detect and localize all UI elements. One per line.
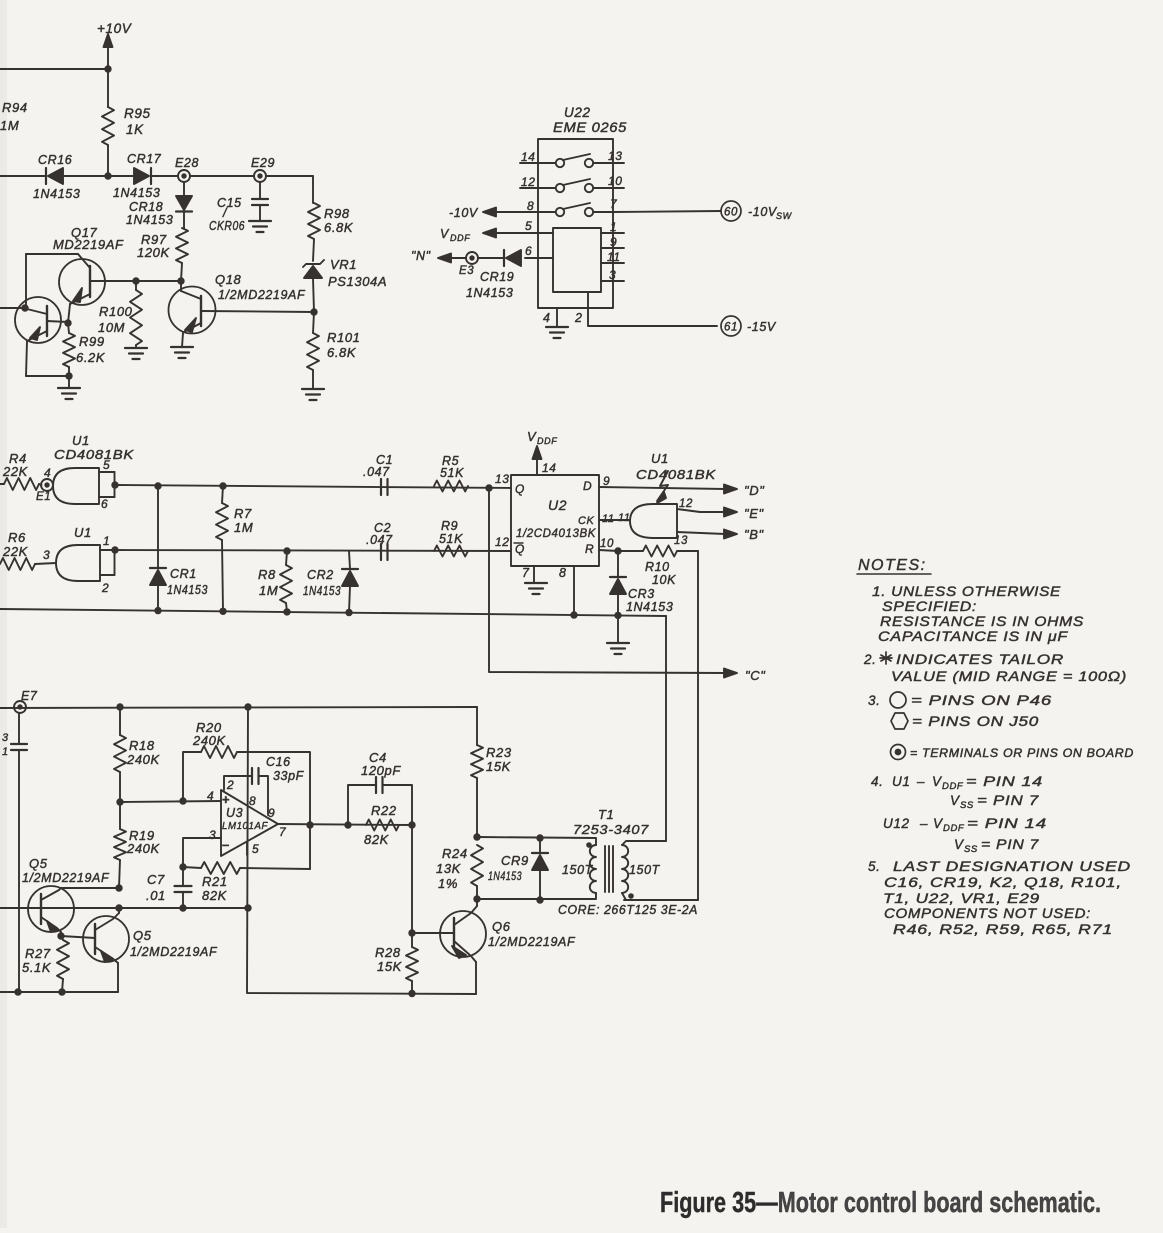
svg-text:R46, R52, R59, R65, R71: R46, R52, R59, R65, R71 bbox=[893, 922, 1113, 937]
relay contact row pins 8-7 bbox=[497, 197, 618, 216]
ground bus wire y610 bbox=[0, 609, 666, 616]
svg-text:240K: 240K bbox=[126, 841, 160, 856]
svg-text:MD2219AF: MD2219AF bbox=[53, 237, 124, 252]
capacitor C3 at left edge bbox=[2, 713, 27, 992]
node R24 bottom Q6 collector bbox=[473, 895, 480, 902]
svg-text:6.8K: 6.8K bbox=[324, 220, 354, 235]
arrow -10V at pin 8 bbox=[449, 206, 496, 220]
resistor R28 15K bbox=[375, 933, 418, 993]
svg-text:DDF: DDF bbox=[943, 823, 965, 834]
svg-text:1/2MD2219AF: 1/2MD2219AF bbox=[218, 288, 306, 302]
wire down to R28 bbox=[411, 825, 413, 933]
svg-text:D: D bbox=[583, 479, 592, 493]
node R20 left bbox=[179, 797, 186, 804]
arrow node E bbox=[724, 506, 764, 521]
power +10V bbox=[97, 21, 133, 69]
relay U22 EME0265 outline bbox=[538, 105, 627, 308]
svg-text:CR19: CR19 bbox=[480, 270, 514, 284]
svg-text:4: 4 bbox=[207, 789, 214, 803]
resistor R18 240K bbox=[114, 707, 160, 802]
svg-text:1N4153: 1N4153 bbox=[488, 871, 522, 883]
svg-text:DDF: DDF bbox=[450, 233, 470, 243]
svg-text:INDICATES TAILOR: INDICATES TAILOR bbox=[896, 652, 1064, 667]
svg-text:6.2K: 6.2K bbox=[76, 350, 106, 365]
relay inner pins 1 9 11 3 bbox=[601, 220, 624, 282]
arrow node B bbox=[724, 527, 764, 542]
transistor Q5 lower 1/2MD2219AF bbox=[61, 908, 218, 992]
capacitor C4 120pF bbox=[348, 750, 412, 825]
wire Q18 base rail y312 bbox=[202, 311, 314, 312]
svg-text:"D": "D" bbox=[744, 483, 765, 498]
wire to T1 primary top bbox=[477, 837, 596, 845]
svg-text:"N": "N" bbox=[411, 249, 431, 263]
arrow node C bbox=[724, 668, 766, 683]
svg-text:51K: 51K bbox=[440, 466, 464, 480]
svg-text:11: 11 bbox=[602, 513, 615, 525]
diode CR2 1N4153 bbox=[303, 551, 358, 613]
resistor R24 13K 1% bbox=[436, 845, 483, 899]
node CR9 top bbox=[536, 834, 543, 841]
svg-text:"C": "C" bbox=[745, 668, 766, 683]
svg-text:7: 7 bbox=[279, 825, 287, 839]
svg-text:= TERMINALS OR PINS ON BOARD: = TERMINALS OR PINS ON BOARD bbox=[910, 748, 1134, 760]
wire Q17 collector feed bbox=[25, 254, 27, 308]
svg-text:C16: C16 bbox=[266, 755, 291, 769]
svg-text:CR17: CR17 bbox=[127, 152, 162, 166]
svg-text:9: 9 bbox=[603, 474, 610, 488]
svg-text:= PINS ON J50: = PINS ON J50 bbox=[912, 714, 1039, 729]
svg-text:Q: Q bbox=[515, 542, 525, 556]
svg-text:R6: R6 bbox=[8, 530, 26, 545]
resistor R100 10M bbox=[98, 281, 142, 348]
U2 pin 11 wire CK bbox=[599, 512, 631, 525]
node gate2 output bbox=[111, 546, 118, 553]
svg-text:1/2CD4013BK: 1/2CD4013BK bbox=[516, 526, 596, 540]
diode CR17 1N4153 bbox=[108, 152, 178, 200]
svg-text:.047: .047 bbox=[363, 465, 390, 479]
svg-text:13: 13 bbox=[495, 472, 510, 486]
svg-text:13: 13 bbox=[608, 149, 623, 163]
svg-text:COMPONENTS NOT USED:: COMPONENTS NOT USED: bbox=[884, 906, 1091, 921]
svg-text:R100: R100 bbox=[99, 304, 133, 319]
svg-text:U2: U2 bbox=[548, 497, 567, 513]
note 4 U12 VSS bbox=[954, 837, 1039, 855]
svg-text:+10V: +10V bbox=[97, 21, 133, 36]
resistor R99 6.2K bbox=[63, 323, 106, 376]
svg-text:150T: 150T bbox=[562, 863, 594, 877]
svg-text:R22: R22 bbox=[371, 803, 397, 818]
svg-text:13: 13 bbox=[674, 535, 688, 547]
transistor Q16 bbox=[15, 297, 68, 376]
node bus CR1 bbox=[154, 607, 161, 614]
svg-text:R23: R23 bbox=[486, 745, 512, 760]
svg-text:8: 8 bbox=[559, 566, 567, 580]
svg-text:1N4153: 1N4153 bbox=[33, 187, 80, 201]
svg-text:E3: E3 bbox=[459, 265, 474, 277]
U2 pin 7 ground bbox=[522, 566, 547, 594]
wire node C bbox=[489, 488, 725, 673]
svg-text:5: 5 bbox=[252, 842, 259, 856]
svg-text:61: 61 bbox=[724, 322, 738, 334]
wire R10 down to T1 secondary bbox=[624, 551, 698, 900]
svg-text:9: 9 bbox=[610, 235, 617, 249]
resistor R101 6.8K bbox=[307, 312, 360, 389]
svg-text:12: 12 bbox=[495, 535, 510, 549]
capacitor C2 .047 bbox=[366, 521, 393, 560]
AND gate U1 near U2 bbox=[630, 504, 677, 538]
note 3 terminals symbol bbox=[891, 745, 1135, 761]
node bus R7 bbox=[219, 608, 226, 615]
node R22 right bbox=[408, 821, 415, 828]
svg-text:10: 10 bbox=[600, 538, 614, 550]
wire E29 to R98 corner bbox=[266, 175, 313, 177]
transformer T1 7253-3407 primary bbox=[562, 807, 649, 893]
svg-text:CR2: CR2 bbox=[307, 568, 334, 582]
svg-text:7: 7 bbox=[522, 566, 530, 580]
resistor R94 (partial label at edge) bbox=[0, 100, 28, 133]
svg-text:CAPACITANCE IS IN μF: CAPACITANCE IS IN μF bbox=[878, 629, 1068, 644]
wire gate2 to U2 pin12 bbox=[115, 550, 511, 551]
svg-text:1M: 1M bbox=[259, 583, 278, 598]
svg-text:1N4153: 1N4153 bbox=[466, 286, 513, 300]
svg-text:R27: R27 bbox=[25, 946, 51, 961]
svg-text:1N4153: 1N4153 bbox=[113, 186, 160, 200]
svg-text:E1: E1 bbox=[36, 491, 51, 503]
svg-text:14: 14 bbox=[542, 461, 557, 475]
svg-text:15K: 15K bbox=[377, 959, 403, 974]
svg-text:14: 14 bbox=[521, 150, 536, 164]
svg-text:12: 12 bbox=[679, 498, 693, 510]
svg-text:VR1: VR1 bbox=[330, 257, 357, 272]
svg-text:4: 4 bbox=[44, 466, 51, 480]
diode CR16 1N4153 bbox=[33, 153, 108, 201]
svg-text:5.: 5. bbox=[868, 859, 880, 874]
diode CR1 1N4153 bbox=[150, 486, 208, 611]
resistor R19 240K bbox=[114, 802, 160, 888]
flip-flop U2 1/2CD4013BK outline bbox=[511, 475, 599, 566]
resistor R5 51K bbox=[434, 454, 468, 492]
svg-text:–: – bbox=[916, 774, 925, 789]
svg-text:1: 1 bbox=[2, 746, 9, 758]
svg-text:6: 6 bbox=[525, 244, 532, 258]
svg-text:Q5: Q5 bbox=[29, 856, 48, 871]
relay pin 4 ground bbox=[543, 308, 568, 338]
svg-text:CORE: 266T125 3E-2A: CORE: 266T125 3E-2A bbox=[558, 903, 698, 917]
node C7 bottom bbox=[179, 904, 186, 911]
svg-text:U3: U3 bbox=[226, 806, 243, 820]
ground under Q18 bbox=[171, 347, 193, 358]
svg-text:CD4081BK: CD4081BK bbox=[54, 447, 135, 462]
svg-text:10M: 10M bbox=[98, 320, 125, 335]
U2 pin 9 wire to node D bbox=[599, 474, 725, 489]
svg-text:15K: 15K bbox=[486, 759, 512, 774]
label T1 core spec bbox=[558, 903, 698, 917]
svg-text:8: 8 bbox=[249, 794, 256, 808]
svg-text:1/2MD2219AF: 1/2MD2219AF bbox=[488, 935, 576, 949]
node bus CR3 bbox=[614, 612, 621, 619]
wire E28 to E29 bbox=[190, 175, 254, 177]
svg-text:CR16: CR16 bbox=[38, 153, 72, 167]
wire op-amp output pin 7 bbox=[278, 824, 412, 825]
node R95 top junction bbox=[104, 65, 111, 72]
svg-text:DDF: DDF bbox=[537, 436, 557, 446]
svg-text:4: 4 bbox=[543, 311, 551, 325]
svg-text:120K: 120K bbox=[137, 245, 170, 260]
U2 pin 13 label bbox=[495, 472, 510, 486]
relay U22 inner coil box bbox=[553, 228, 601, 292]
svg-text:1: 1 bbox=[610, 220, 617, 234]
svg-text:T1, U22, VR1, E29: T1, U22, VR1, E29 bbox=[883, 891, 1040, 906]
node R28 bottom bbox=[408, 990, 415, 997]
note 3 pins on P46 bbox=[868, 692, 1052, 708]
svg-text:3: 3 bbox=[2, 732, 9, 744]
svg-text:Q: Q bbox=[515, 482, 525, 496]
U2 pin 8 stub bbox=[559, 566, 574, 615]
svg-text:CKR06: CKR06 bbox=[209, 219, 245, 233]
svg-text:PS1304A: PS1304A bbox=[328, 274, 387, 289]
svg-text:= PIN 7: = PIN 7 bbox=[981, 837, 1039, 852]
svg-text:51K: 51K bbox=[439, 532, 463, 546]
svg-text:11: 11 bbox=[607, 250, 621, 264]
node R19 Q5 collector bbox=[115, 884, 122, 891]
node long vertical top bbox=[244, 703, 251, 710]
svg-text:= PIN 14: = PIN 14 bbox=[967, 816, 1047, 831]
svg-text:Q6: Q6 bbox=[492, 919, 511, 934]
svg-text:1M: 1M bbox=[0, 118, 19, 133]
svg-text:7253-3407: 7253-3407 bbox=[573, 822, 649, 837]
svg-text:1/2MD2219AF: 1/2MD2219AF bbox=[22, 871, 110, 885]
note 4 U12 VDDF bbox=[883, 816, 1047, 834]
svg-text:R21: R21 bbox=[202, 874, 228, 889]
svg-text:33pF: 33pF bbox=[273, 769, 305, 783]
svg-text:U12: U12 bbox=[883, 816, 910, 831]
wire pin 6 bbox=[525, 244, 553, 258]
svg-text:2: 2 bbox=[226, 778, 234, 792]
svg-text:CR9: CR9 bbox=[501, 853, 529, 868]
svg-text:R94: R94 bbox=[2, 100, 28, 115]
wire from left edge y308 bbox=[0, 307, 25, 309]
svg-text:-10V: -10V bbox=[748, 205, 778, 219]
svg-text:R: R bbox=[585, 542, 594, 556]
bus wire E7 y707 bbox=[0, 707, 477, 708]
svg-text:6: 6 bbox=[101, 497, 108, 511]
bus wire bottom left bbox=[0, 991, 118, 993]
capacitor C1 .047 bbox=[363, 453, 393, 495]
svg-text:U22: U22 bbox=[564, 105, 591, 120]
relay contact row pins 14-13 bbox=[520, 149, 624, 167]
svg-text:–: – bbox=[919, 816, 928, 831]
power VDDF at U2 pin 14 bbox=[527, 429, 557, 475]
resistor R22 82K bbox=[364, 803, 399, 847]
U2 pin 10 wire R bbox=[599, 538, 618, 551]
zener diode VR1 PS1304A bbox=[303, 257, 387, 312]
node left-edge junction bbox=[21, 304, 28, 311]
callout U1 CD4081BK bbox=[636, 451, 716, 503]
node R23 R24 junction bbox=[473, 833, 480, 840]
svg-text:DDF: DDF bbox=[942, 781, 964, 792]
svg-text:R24: R24 bbox=[442, 846, 468, 861]
diode CR19 1N4153 bbox=[466, 250, 521, 300]
node CR9 bottom bbox=[536, 896, 543, 903]
svg-text:U1: U1 bbox=[74, 525, 92, 540]
resistor R4 22K bbox=[0, 451, 42, 490]
svg-text:240K: 240K bbox=[192, 733, 226, 748]
node CR1 column top bbox=[154, 482, 161, 489]
svg-text:CR1: CR1 bbox=[170, 567, 197, 581]
svg-text:2.: 2. bbox=[863, 652, 876, 667]
svg-text:60: 60 bbox=[724, 207, 738, 219]
svg-text:R101: R101 bbox=[327, 330, 360, 345]
note 3 pins on J50 bbox=[891, 713, 1039, 729]
wire gate3 to node E pin 12 bbox=[677, 498, 725, 512]
AND gate U1 pins 3-1-2 bbox=[56, 525, 100, 581]
svg-text:SW: SW bbox=[776, 211, 793, 221]
svg-text:1%: 1% bbox=[438, 876, 458, 891]
terminal E7 bbox=[14, 689, 38, 713]
resistor R98 6.8K bbox=[308, 176, 354, 261]
resistor R23 15K bbox=[471, 707, 512, 837]
figure caption bbox=[660, 1187, 1101, 1219]
resistor R7 1M bbox=[216, 486, 253, 611]
terminal E3 bbox=[459, 252, 478, 277]
svg-text:R95: R95 bbox=[124, 106, 151, 121]
node R10 CR3 junction bbox=[614, 547, 621, 554]
svg-text:V: V bbox=[440, 227, 450, 241]
resistor R21 82K bbox=[183, 862, 310, 903]
svg-text:T1: T1 bbox=[598, 807, 614, 822]
svg-text:+: + bbox=[222, 792, 230, 807]
node bus R8 bbox=[283, 608, 290, 615]
svg-text:150T: 150T bbox=[629, 863, 661, 877]
svg-text:U1: U1 bbox=[892, 774, 910, 789]
node gate1 output bbox=[111, 481, 118, 488]
svg-text:.047: .047 bbox=[366, 533, 393, 547]
wire top-left horizontal bbox=[0, 68, 108, 70]
svg-text:1M: 1M bbox=[234, 520, 253, 535]
svg-text:2: 2 bbox=[101, 581, 109, 595]
svg-text:22K: 22K bbox=[2, 544, 29, 559]
svg-text:R18: R18 bbox=[129, 738, 155, 753]
svg-text:3: 3 bbox=[43, 548, 50, 562]
node bus CR2 bbox=[345, 609, 352, 616]
svg-text:5: 5 bbox=[103, 458, 110, 472]
svg-text:= PIN 7: = PIN 7 bbox=[977, 793, 1039, 808]
svg-text:SS: SS bbox=[964, 844, 978, 855]
node R18 top bbox=[116, 703, 123, 710]
arrow node D bbox=[724, 483, 765, 498]
gate1 output bracket pins 5 6 bbox=[99, 458, 115, 511]
node R8 top bbox=[283, 547, 290, 554]
wire bus to T1 secondary top bbox=[665, 616, 667, 841]
svg-text:6.8K: 6.8K bbox=[327, 345, 357, 360]
capacitor C16 33pF bbox=[224, 755, 305, 815]
note 4 U1 VSS bbox=[950, 793, 1039, 811]
resistor R6 22K bbox=[0, 530, 56, 570]
resistor R95 bbox=[102, 69, 151, 176]
svg-text:3: 3 bbox=[609, 268, 616, 282]
node y908 x119 bbox=[115, 904, 122, 911]
arrow VDDF at pin 5 bbox=[440, 227, 496, 243]
svg-text:1K: 1K bbox=[126, 122, 144, 137]
wire to op-amp pin 4 bbox=[120, 801, 221, 802]
svg-text:E7: E7 bbox=[21, 689, 38, 703]
ground under C15 bbox=[249, 221, 271, 232]
capacitor C15 1 CKR06 bbox=[209, 182, 268, 233]
svg-text:10K: 10K bbox=[652, 573, 676, 587]
long vertical feedback rail bbox=[247, 707, 476, 994]
svg-text:3.: 3. bbox=[868, 693, 880, 708]
svg-text:13K: 13K bbox=[436, 861, 462, 876]
svg-text:NOTES:: NOTES: bbox=[858, 557, 927, 574]
note 1 text bbox=[872, 584, 1084, 644]
svg-text:11: 11 bbox=[618, 512, 631, 524]
note 2 text bbox=[863, 652, 1127, 684]
svg-text:EME 0265: EME 0265 bbox=[553, 120, 627, 135]
wire op-amp pin 3 bbox=[183, 838, 221, 867]
wire pin 2 to connector 61 bbox=[574, 292, 717, 326]
terminal E28 bbox=[175, 156, 199, 182]
transformer T1 secondary bbox=[622, 841, 698, 900]
svg-text:1N4153: 1N4153 bbox=[126, 213, 173, 227]
svg-text:1. UNLESS OTHERWISE: 1. UNLESS OTHERWISE bbox=[872, 584, 1061, 599]
ground under CR3 bbox=[607, 615, 629, 654]
svg-text:Q18: Q18 bbox=[215, 272, 242, 287]
svg-text:22K: 22K bbox=[2, 464, 29, 479]
op-amp U3 LM101AF bbox=[207, 778, 287, 856]
node C4 left bbox=[344, 821, 351, 828]
svg-text:1: 1 bbox=[103, 534, 110, 548]
svg-text:E28: E28 bbox=[175, 156, 199, 170]
diode CR3 1N4153 bbox=[610, 551, 673, 615]
connector pin 61 -15V bbox=[721, 316, 777, 336]
resistor R97 120K bbox=[137, 228, 188, 281]
wire pin 7 to connector 60 bbox=[613, 211, 721, 212]
arrow to node N bbox=[411, 249, 466, 263]
svg-text:1/2MD2219AF: 1/2MD2219AF bbox=[130, 945, 218, 959]
diode CR9 1N4153 bbox=[488, 838, 548, 900]
resistor R20 240K bbox=[183, 720, 310, 869]
svg-text:5.1K: 5.1K bbox=[22, 960, 52, 975]
svg-text:240K: 240K bbox=[126, 752, 160, 767]
svg-text:R7: R7 bbox=[234, 506, 252, 521]
transformer T1 core bbox=[605, 846, 613, 892]
note 4 U1 VDDF bbox=[871, 774, 1043, 792]
node R21 C7 junction bbox=[179, 863, 186, 870]
svg-text:1N4153: 1N4153 bbox=[303, 584, 341, 598]
node feedback x310 bbox=[306, 821, 313, 828]
svg-text:V: V bbox=[527, 429, 537, 444]
wire gate3 to node B pin 13 bbox=[674, 532, 725, 547]
svg-text:-15V: -15V bbox=[747, 320, 777, 334]
ground under R99 bbox=[58, 376, 80, 399]
notes heading bbox=[857, 557, 931, 574]
node R99 bottom bbox=[65, 372, 72, 379]
relay contact row pins 12-10 bbox=[520, 174, 624, 192]
node bus x18 bbox=[14, 988, 21, 995]
svg-text:120pF: 120pF bbox=[361, 763, 401, 778]
node Q6 base junction bbox=[408, 929, 415, 936]
note 5 text bbox=[868, 859, 1131, 937]
transistor Q6 1/2MD2219AF bbox=[412, 899, 576, 994]
ground under R100 bbox=[125, 348, 147, 359]
node bus R27 bbox=[58, 988, 65, 995]
svg-text:Figure 35—Motor control board: Figure 35—Motor control board schematic. bbox=[660, 1187, 1101, 1219]
svg-text:U1: U1 bbox=[72, 433, 90, 448]
wire Q16 emitter loop bbox=[26, 375, 69, 377]
svg-text:R99: R99 bbox=[79, 334, 105, 349]
svg-text:R8: R8 bbox=[258, 567, 276, 582]
node bus pin8 bbox=[570, 611, 577, 618]
